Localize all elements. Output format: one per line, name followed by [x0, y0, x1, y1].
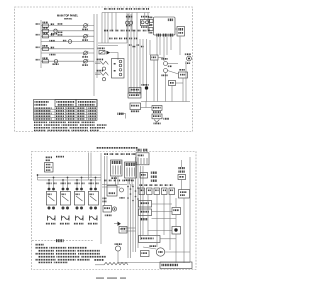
- switch S1: [43, 22, 55, 28]
- rung 4 wire: [41, 41, 94, 43]
- lamp DS2: [50, 40, 72, 44]
- stack box sensor: [139, 209, 152, 216]
- surface switch S7: [60, 183, 71, 225]
- lamp socket L1: [126, 16, 133, 26]
- thermostat T2: [82, 34, 88, 41]
- label: [50, 54, 56, 56]
- mid wires: [102, 185, 127, 188]
- mid label row: [104, 180, 134, 182]
- small box A: [169, 81, 176, 86]
- rung 3 wire: [41, 35, 94, 37]
- wire bundle center: [128, 14, 147, 96]
- bake element zigzag: [94, 259, 128, 265]
- door switch node: [142, 84, 149, 102]
- transformer T7: [125, 162, 137, 181]
- right column box 1: [172, 208, 181, 215]
- rung mid labels: [57, 23, 63, 36]
- interlock wire: [141, 102, 190, 108]
- horizontal wires bottom right: [118, 228, 190, 263]
- connector row: [139, 188, 175, 195]
- rung 7 wire: [41, 60, 94, 62]
- oven light box: [179, 190, 190, 199]
- rung wire-number labels: [36, 23, 40, 60]
- terminal bus wire: [102, 12, 150, 14]
- limit switch box: [179, 69, 188, 78]
- surface switch S8: [74, 183, 85, 225]
- wiring code table: [34, 100, 98, 121]
- switch S4: [43, 45, 55, 51]
- link wires right: [148, 204, 173, 231]
- bus wires upper right: [98, 43, 127, 46]
- surface switch S9: [88, 183, 99, 225]
- thermal switch box: [152, 114, 162, 124]
- lock switch box: [130, 103, 141, 112]
- right relay column: [178, 160, 186, 190]
- svg-text:MAIN TOP PANEL: MAIN TOP PANEL: [57, 15, 79, 18]
- small box B: [151, 55, 159, 60]
- lower comp row center: [103, 206, 117, 217]
- right vertical wires: [148, 157, 190, 263]
- relay K1: [112, 59, 125, 79]
- sensor link wire: [152, 218, 177, 220]
- top label row bottom panel: [104, 153, 136, 155]
- relay R2 circles: [162, 58, 173, 76]
- right column box 2: [172, 227, 181, 235]
- drop wires from switches: [49, 178, 96, 188]
- board connector pins: [156, 34, 174, 37]
- stack box hi-limit: [139, 201, 152, 208]
- latch switch box 2: [128, 93, 141, 98]
- small box bottom: [141, 251, 150, 257]
- left rail wire: [40, 20, 42, 68]
- bottom panel title blob: [96, 147, 138, 149]
- thermostat T4: [82, 59, 88, 66]
- long element box: [139, 236, 161, 243]
- fan motor M1: [185, 53, 192, 64]
- fuse F1: [98, 48, 111, 55]
- bottom panel dashed border: [32, 152, 197, 270]
- right area wires: [150, 40, 186, 102]
- oven switch box: [107, 186, 117, 197]
- feed wires: [38, 175, 102, 180]
- lamp DS3: [52, 60, 59, 66]
- convection motor M2: [150, 245, 165, 256]
- switch S3: [43, 32, 55, 38]
- lock motor box: [141, 106, 163, 113]
- horizontal links right: [158, 58, 183, 84]
- transformer tail wires: [116, 176, 133, 187]
- blob row below: [140, 218, 148, 220]
- part number box: [160, 262, 192, 269]
- control board U1: [154, 17, 176, 35]
- comp circle bottom: [115, 243, 122, 262]
- pilot lamp DS1: [51, 29, 58, 34]
- right rail wire: [93, 14, 95, 96]
- surface switch S6: [46, 183, 57, 225]
- wire stub: [119, 114, 126, 119]
- transformer T6: [111, 160, 123, 179]
- rung 5 wire: [41, 48, 94, 50]
- connector row labels: [140, 184, 173, 186]
- supply entry wires: [89, 153, 92, 181]
- legend block: [45, 156, 65, 172]
- terminal label row: [104, 8, 149, 10]
- board drop wires: [157, 36, 180, 61]
- rung 6 wire: [41, 52, 94, 54]
- relay stack: [151, 172, 158, 182]
- latch switch box: [129, 88, 141, 93]
- connector label row 2: [109, 38, 138, 40]
- terminal block cluster: [136, 149, 149, 165]
- center sub wires: [105, 156, 108, 206]
- stub blob: [118, 113, 125, 115]
- lamp socket L2: [140, 16, 149, 28]
- wire board to transformer: [175, 28, 177, 30]
- notes divider: [32, 239, 93, 242]
- switch S2: [43, 27, 49, 33]
- footer faint text: [96, 277, 126, 279]
- table notes: [34, 122, 108, 132]
- bundle tag blobs: [129, 44, 144, 47]
- thermostat T3: [82, 51, 88, 58]
- BK label blobs: [103, 198, 107, 203]
- bundle verticals center: [128, 157, 143, 258]
- mid circle comp: [120, 188, 125, 199]
- terminal drop wires: [102, 13, 148, 44]
- feed junction dots: [37, 174, 97, 181]
- right rail wire 2: [96, 14, 98, 78]
- thermostat T1: [82, 24, 88, 31]
- rung 2 wire: [41, 30, 94, 32]
- transformer T5: [177, 27, 185, 37]
- arrow contact: [114, 222, 121, 226]
- bake element E2: [95, 70, 108, 81]
- junction dots: [127, 186, 139, 202]
- rung 1 wire: [41, 25, 94, 27]
- svg-text:WIRING: WIRING: [64, 19, 72, 21]
- comp blob mid-left of bundle: [119, 227, 127, 234]
- switch S5: [43, 57, 49, 63]
- connector label row: [104, 30, 150, 32]
- wire fuse to bundle: [110, 53, 118, 60]
- notes text: [35, 244, 106, 263]
- lock label blob: [164, 118, 170, 120]
- top panel dashed border: [15, 7, 193, 132]
- small box mid: [140, 173, 148, 179]
- broil element E1: [95, 59, 108, 71]
- center divider wire: [100, 153, 102, 244]
- clock column: [149, 17, 154, 34]
